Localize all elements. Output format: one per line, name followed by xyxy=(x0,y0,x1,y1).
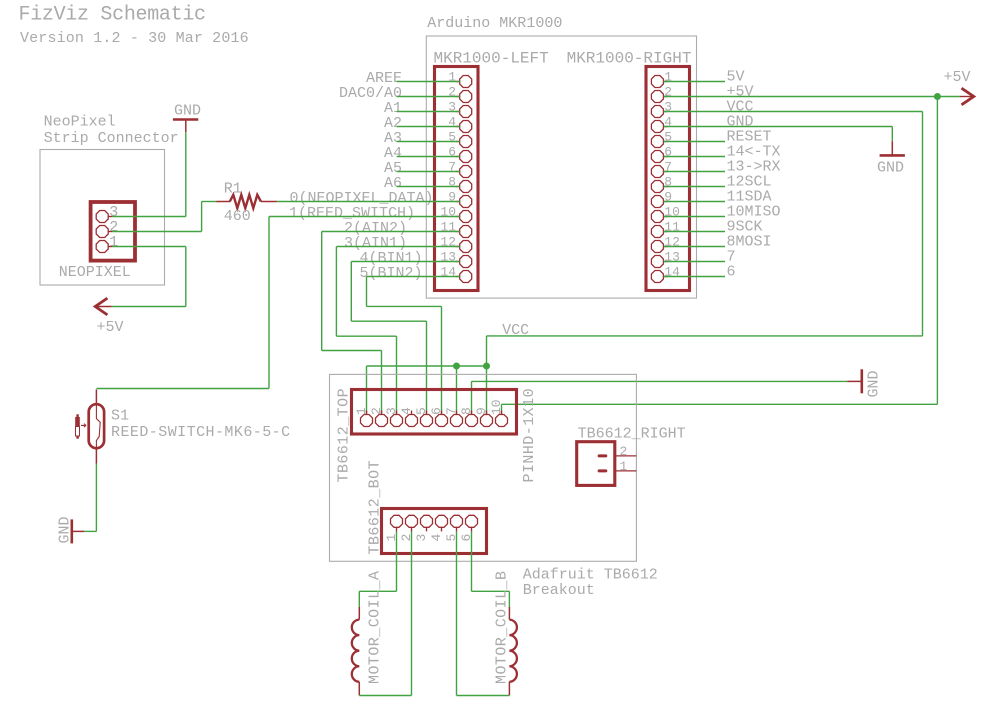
svg-text:NEOPIXEL: NEOPIXEL xyxy=(59,264,131,281)
svg-text:9: 9 xyxy=(474,407,489,415)
svg-text:REED-SWITCH-MK6-5-C: REED-SWITCH-MK6-5-C xyxy=(111,424,291,441)
NEOPIXEL pin 2 stub xyxy=(108,231,112,233)
connector NEOPIXEL box xyxy=(91,202,135,261)
wire MKR pin 14 vertical xyxy=(366,277,368,307)
inductor MOTOR_COIL_B windings xyxy=(509,620,517,682)
wire to MOTOR_COIL_A top xyxy=(359,590,396,592)
MKR1000-LEFT pin 3 circle xyxy=(460,106,472,118)
wire net 0(NEOPIXEL_DATA) to MKR-LEFT pin 9 xyxy=(277,201,460,203)
wire into TB6612_TOP pin xyxy=(396,336,398,414)
connector TB6612_RIGHT box xyxy=(577,442,615,486)
svg-text:2: 2 xyxy=(620,444,628,459)
resistor R1 right lead xyxy=(261,201,277,203)
wire into TB6612_TOP pin 10 xyxy=(501,404,503,414)
wire MKR pin 12 vertical xyxy=(335,247,337,337)
wire net A3 to MKR-LEFT pin 5 xyxy=(397,141,460,143)
svg-text:GND: GND xyxy=(57,516,74,543)
wire net +5V from MKR-RIGHT pin 2 xyxy=(664,96,960,98)
MKR1000-LEFT pin 7 stub xyxy=(456,171,460,173)
wire GND drop from MKR-RIGHT pin 4 xyxy=(891,127,893,142)
wire net 12SCL from MKR-RIGHT pin 8 xyxy=(664,186,725,188)
MKR1000-RIGHT pin 14 stub xyxy=(664,276,668,278)
svg-text:1: 1 xyxy=(109,234,118,251)
svg-text:MKR1000-RIGHT: MKR1000-RIGHT xyxy=(567,50,692,68)
MKR1000-LEFT pin 7 circle xyxy=(460,166,472,178)
MKR1000-RIGHT pin 4 stub xyxy=(664,126,668,128)
wire net A4 to MKR-LEFT pin 6 xyxy=(397,156,460,158)
MKR1000-RIGHT pin 6 stub xyxy=(664,156,668,158)
switch S1 magnet top tab xyxy=(76,414,78,417)
wire +5V to TB6612_TOP pin 10 xyxy=(502,403,938,405)
wire net 2(AIN2) to MKR-LEFT pin 11 xyxy=(322,231,460,233)
TB6612_TOP pin 2 circle xyxy=(376,415,388,427)
svg-text:7: 7 xyxy=(444,407,459,415)
svg-text:6: 6 xyxy=(429,407,444,415)
Arduino MKR1000 frame xyxy=(426,36,696,298)
wire MOTOR_COIL_B bottom xyxy=(457,695,510,697)
wire VCC drop to junction xyxy=(486,336,488,366)
wire to R1 left lead xyxy=(202,201,217,203)
MKR1000-LEFT pin 8 stub xyxy=(456,186,460,188)
MKR1000-RIGHT pin 2 circle xyxy=(651,91,663,103)
MKR1000-RIGHT pin 3 circle xyxy=(651,106,663,118)
wire net 3(AIN1) to MKR-LEFT pin 12 xyxy=(336,246,459,248)
wire net VCC from MKR-RIGHT pin 3 xyxy=(664,111,923,113)
svg-text:Version 1.2 - 30 Mar 2016: Version 1.2 - 30 Mar 2016 xyxy=(20,30,249,47)
TB6612_TOP pin 4 circle xyxy=(406,415,418,427)
wire net 1(REED_SWITCH) to MKR-LEFT pin 10 xyxy=(269,216,460,218)
wire net 7 from MKR-RIGHT pin 13 xyxy=(664,261,725,263)
switch S1 magnet arrow xyxy=(81,424,86,428)
ground G4 bar xyxy=(71,519,74,543)
MKR1000-LEFT pin 4 circle xyxy=(460,121,472,133)
junction dot at TOP pin 9 xyxy=(483,363,490,370)
MKR1000-LEFT pin 10 circle xyxy=(460,211,472,223)
svg-text:5(BIN2): 5(BIN2) xyxy=(359,265,422,282)
ground G2 stub xyxy=(847,380,862,382)
wire net 4(BIN1) to MKR-LEFT pin 13 xyxy=(351,261,459,263)
svg-text:1: 1 xyxy=(354,407,369,415)
wire NEOPIXEL pin 2 xyxy=(112,231,201,233)
TB6612_TOP pin 9 circle xyxy=(481,415,493,427)
TB6612_BOT pin 5 stub xyxy=(456,528,458,532)
switch S1 magnet body xyxy=(75,417,80,427)
TB6612_BOT pin 4 circle xyxy=(436,515,448,527)
MKR1000-LEFT pin 1 circle xyxy=(460,76,472,88)
MKR1000-LEFT pin 9 stub xyxy=(456,201,460,203)
MKR1000-LEFT pin 5 circle xyxy=(460,136,472,148)
MKR1000-LEFT pin 14 circle xyxy=(460,271,472,283)
wire net AREE to MKR-LEFT pin 1 xyxy=(397,81,460,83)
wire net A6 to MKR-LEFT pin 8 xyxy=(397,186,460,188)
svg-text:MOTOR_COIL_A: MOTOR_COIL_A xyxy=(367,571,384,684)
TB6612_RIGHT pin 2 bar xyxy=(598,454,608,457)
switch S1 magnet bottom tab xyxy=(76,436,78,439)
MKR1000-LEFT pin 1 stub xyxy=(456,81,460,83)
connector MKR1000-LEFT box xyxy=(435,67,479,291)
junction dot at TOP pin 7 xyxy=(453,363,460,370)
wire REED_SWITCH vertical xyxy=(268,217,270,389)
MKR1000-RIGHT pin 1 circle xyxy=(651,76,663,88)
wire net 14<-TX from MKR-RIGHT pin 6 xyxy=(664,156,725,158)
wire net 9SCK from MKR-RIGHT pin 11 xyxy=(664,231,725,233)
svg-text:4: 4 xyxy=(429,534,444,542)
svg-text:+5V: +5V xyxy=(944,69,971,86)
MKR1000-RIGHT pin 4 circle xyxy=(651,121,663,133)
MKR1000-LEFT pin 3 stub xyxy=(456,111,460,113)
svg-text:10: 10 xyxy=(489,399,504,415)
TB6612_TOP pin 3 stub xyxy=(396,411,398,415)
switch S1 body xyxy=(89,404,104,448)
MKR1000-RIGHT pin 8 stub xyxy=(664,186,668,188)
MKR1000-RIGHT pin 5 stub xyxy=(664,141,668,143)
svg-text:TB6612_TOP: TB6612_TOP xyxy=(336,388,353,483)
svg-text:FizViz Schematic: FizViz Schematic xyxy=(19,4,206,27)
wire into TB6612_TOP pin 7 xyxy=(456,366,458,414)
MKR1000-LEFT pin 13 circle xyxy=(460,256,472,268)
wire into TB6612_TOP pin 9 xyxy=(486,366,488,414)
svg-text:Adafruit TB6612: Adafruit TB6612 xyxy=(523,566,658,583)
MKR1000-RIGHT pin 7 circle xyxy=(651,166,663,178)
MKR1000-LEFT pin 4 stub xyxy=(456,126,460,128)
wire net 13->RX from MKR-RIGHT pin 7 xyxy=(664,171,725,173)
NEOPIXEL pin 3 circle xyxy=(96,211,108,223)
TB6612_BOT pin 6 stub xyxy=(471,528,473,532)
svg-text:NeoPixel: NeoPixel xyxy=(44,113,116,130)
TB6612_BOT pin 2 stub xyxy=(411,528,413,532)
TB6612_BOT pin 6 circle xyxy=(466,515,478,527)
TB6612_TOP pin 7 stub xyxy=(456,411,458,415)
TB6612_RIGHT pin 2 line xyxy=(615,455,637,457)
MKR1000-LEFT pin 13 stub xyxy=(456,261,460,263)
resistor R1 left lead xyxy=(216,201,230,203)
MKR1000-RIGHT pin 14 circle xyxy=(651,271,663,283)
wire +5V vertical right side xyxy=(936,97,938,405)
TB6612_TOP pin 4 stub xyxy=(411,411,413,415)
svg-text:3: 3 xyxy=(384,407,399,415)
wire net 10MISO from MKR-RIGHT pin 10 xyxy=(664,216,725,218)
TB6612_TOP pin 6 circle xyxy=(436,415,448,427)
TB6612_TOP pin 6 stub xyxy=(441,411,443,415)
wire MKR pin 11 horizontal xyxy=(322,350,382,352)
wire into coil B xyxy=(508,591,510,607)
MKR1000-RIGHT pin 10 stub xyxy=(664,216,668,218)
MKR1000-LEFT pin 6 stub xyxy=(456,156,460,158)
Adafruit TB6612 frame xyxy=(330,374,637,561)
wire into coil A xyxy=(358,591,360,607)
wire MKR pin 14 horizontal xyxy=(367,305,442,307)
TB6612_TOP pin 8 stub xyxy=(471,411,473,415)
MKR1000-RIGHT pin 1 stub xyxy=(664,81,668,83)
TB6612_TOP pin 7 circle xyxy=(451,415,463,427)
MKR1000-RIGHT pin 6 circle xyxy=(651,151,663,163)
wire down to +5V xyxy=(185,247,187,307)
wire MKR pin 12 horizontal xyxy=(336,335,396,337)
wire MKR pin 13 vertical xyxy=(350,262,352,322)
TB6612_TOP pin 5 stub xyxy=(426,411,428,415)
MKR1000-RIGHT pin 12 circle xyxy=(651,241,663,253)
TB6612_TOP pin 1 stub xyxy=(366,411,368,415)
wire net DAC0/A0 to MKR-LEFT pin 2 xyxy=(397,96,460,98)
resistor R1 zigzag xyxy=(230,195,261,208)
wire into TB6612_TOP pin xyxy=(381,351,383,415)
ground G1 stub xyxy=(891,141,893,155)
wire riser to R1 xyxy=(201,202,203,232)
wire net A5 to MKR-LEFT pin 7 xyxy=(397,171,460,173)
MKR1000-RIGHT pin 9 circle xyxy=(651,196,663,208)
wire NEOPIXEL pin 3 xyxy=(112,216,185,218)
svg-text:1: 1 xyxy=(620,459,628,474)
NEOPIXEL pin 1 circle xyxy=(96,241,108,253)
svg-text:TB6612_RIGHT: TB6612_RIGHT xyxy=(578,425,686,442)
svg-text:+5V: +5V xyxy=(97,319,124,336)
wire GND to TB6612_TOP pin 8 xyxy=(472,380,848,382)
wire net A2 to MKR-LEFT pin 4 xyxy=(397,126,460,128)
MKR1000-RIGHT pin 11 stub xyxy=(664,231,668,233)
MKR1000-LEFT pin 9 circle xyxy=(460,196,472,208)
TB6612_TOP pin 10 circle xyxy=(496,415,508,427)
MKR1000-RIGHT pin 5 circle xyxy=(651,136,663,148)
wire to MOTOR_COIL_B top xyxy=(472,590,510,592)
ground G2 bar xyxy=(860,369,863,393)
junction dot +5V xyxy=(934,93,941,100)
switch S1 bottom lead xyxy=(95,449,97,464)
switch S1 contact xyxy=(96,404,100,450)
svg-text:6: 6 xyxy=(727,264,736,281)
connector MKR1000-RIGHT box xyxy=(646,67,690,291)
svg-text:PINHD-1X10: PINHD-1X10 xyxy=(521,388,538,483)
wire net 11SDA from MKR-RIGHT pin 9 xyxy=(664,201,725,203)
inductor MOTOR_COIL_B top lead xyxy=(508,607,510,620)
+5V symbol right shaft xyxy=(960,96,974,98)
ground G4 stub xyxy=(73,530,84,532)
TB6612_RIGHT pin 1 bar xyxy=(598,469,608,472)
wire VCC vertical right xyxy=(922,112,924,336)
wire NEOPIXEL pin 1 xyxy=(112,246,185,248)
wire MKR pin 13 horizontal xyxy=(351,320,426,322)
svg-text:3: 3 xyxy=(414,534,429,542)
TB6612_BOT pin 1 stub xyxy=(396,528,398,532)
wire into TB6612_TOP pin xyxy=(441,306,443,414)
wire into TB6612_TOP pin 8 xyxy=(471,381,473,414)
inductor MOTOR_COIL_B bottom lead xyxy=(508,682,510,696)
wire GND down to NEOPIXEL pin 3 xyxy=(185,132,187,216)
svg-text:S1: S1 xyxy=(111,407,129,424)
svg-text:2: 2 xyxy=(369,407,384,415)
svg-text:Arduino MKR1000: Arduino MKR1000 xyxy=(427,15,562,32)
wire TB6612_BOT pin 6 down xyxy=(471,531,473,591)
svg-text:VCC: VCC xyxy=(502,322,529,339)
TB6612_BOT pin 3 circle xyxy=(421,515,433,527)
TB6612_TOP pin 1 circle xyxy=(361,415,373,427)
ground G3 bar xyxy=(173,118,198,121)
wire MOTOR_COIL_A bottom xyxy=(359,695,411,697)
ground G3 stub xyxy=(185,120,187,133)
svg-text:5: 5 xyxy=(414,407,429,415)
inductor MOTOR_COIL_A bottom lead xyxy=(358,682,360,696)
+5V symbol right arrow xyxy=(962,88,974,105)
wire into TB6612_TOP pin 1 xyxy=(366,366,368,414)
TB6612_RIGHT pin 1 line xyxy=(615,470,637,472)
svg-text:MKR1000-LEFT: MKR1000-LEFT xyxy=(434,50,549,68)
wire VCC horizontal xyxy=(487,335,923,337)
MKR1000-RIGHT pin 10 circle xyxy=(651,211,663,223)
wire net RESET from MKR-RIGHT pin 5 xyxy=(664,141,725,143)
MKR1000-LEFT pin 12 stub xyxy=(456,246,460,248)
wire TB6612_BOT pin 1 down xyxy=(396,531,398,591)
svg-text:8: 8 xyxy=(459,407,474,415)
wire net 6 from MKR-RIGHT pin 14 xyxy=(664,276,725,278)
TB6612_BOT pin 5 circle xyxy=(451,515,463,527)
MKR1000-LEFT pin 11 stub xyxy=(456,231,460,233)
wire net 5(BIN2) to MKR-LEFT pin 14 xyxy=(367,276,460,278)
wire S1 to GND xyxy=(95,464,97,532)
MKR1000-LEFT pin 2 circle xyxy=(460,91,472,103)
wire into TB6612_TOP pin xyxy=(426,321,428,414)
MKR1000-LEFT pin 6 circle xyxy=(460,151,472,163)
inductor MOTOR_COIL_A top lead xyxy=(358,607,360,620)
svg-text:MOTOR_COIL_B: MOTOR_COIL_B xyxy=(494,571,511,684)
svg-text:GND: GND xyxy=(866,370,883,397)
MKR1000-LEFT pin 2 stub xyxy=(456,96,460,98)
MKR1000-RIGHT pin 13 stub xyxy=(664,261,668,263)
MKR1000-LEFT pin 12 circle xyxy=(460,241,472,253)
svg-text:4: 4 xyxy=(399,407,414,415)
wire VCC bus above TB6612_TOP xyxy=(367,365,487,367)
wire MKR pin 11 vertical xyxy=(321,232,323,351)
MKR1000-LEFT pin 8 circle xyxy=(460,181,472,193)
TB6612_BOT pin 2 circle xyxy=(406,515,418,527)
TB6612_TOP pin 9 stub xyxy=(486,411,488,415)
MKR1000-RIGHT pin 7 stub xyxy=(664,171,668,173)
MKR1000-RIGHT pin 13 circle xyxy=(651,256,663,268)
ground G1 bar xyxy=(880,154,905,157)
TB6612_TOP pin 10 stub xyxy=(501,411,503,415)
+5V symbol left shaft xyxy=(95,306,111,308)
TB6612_TOP pin 2 stub xyxy=(381,411,383,415)
inductor MOTOR_COIL_A windings xyxy=(352,620,360,682)
connector TB6612_TOP box xyxy=(352,390,517,435)
MKR1000-RIGHT pin 2 stub xyxy=(664,96,668,98)
wire REED_SWITCH horizontal xyxy=(96,388,269,390)
svg-text:Breakout: Breakout xyxy=(523,582,595,599)
svg-text:TB6612_BOT: TB6612_BOT xyxy=(367,460,384,555)
MKR1000-RIGHT pin 9 stub xyxy=(664,201,668,203)
TB6612_BOT pin 1 circle xyxy=(391,515,403,527)
TB6612_BOT pin 3 stub xyxy=(426,528,428,532)
NEOPIXEL pin 2 circle xyxy=(96,226,108,238)
TB6612_TOP pin 5 circle xyxy=(421,415,433,427)
MKR1000-RIGHT pin 11 circle xyxy=(651,226,663,238)
svg-text:Strip Connector: Strip Connector xyxy=(44,130,179,147)
svg-text:460: 460 xyxy=(224,208,251,225)
svg-text:GND: GND xyxy=(877,159,904,176)
TB6612_BOT pin 4 stub xyxy=(441,528,443,532)
wire net 8MOSI from MKR-RIGHT pin 12 xyxy=(664,246,725,248)
MKR1000-RIGHT pin 12 stub xyxy=(664,246,668,248)
connector TB6612_BOT box xyxy=(382,509,487,554)
MKR1000-LEFT pin 14 stub xyxy=(456,276,460,278)
switch S1 magnet outline xyxy=(76,427,80,437)
NEOPIXEL pin 1 stub xyxy=(108,246,112,248)
MKR1000-RIGHT pin 3 stub xyxy=(664,111,668,113)
+5V symbol left arrow xyxy=(95,298,107,315)
wire to GND stub xyxy=(84,530,96,532)
wire net A1 to MKR-LEFT pin 3 xyxy=(397,111,460,113)
wire net 5V from MKR-RIGHT pin 1 xyxy=(664,81,725,83)
NEOPIXEL pin 3 stub xyxy=(108,216,112,218)
TB6612_TOP pin 3 circle xyxy=(391,415,403,427)
NeoPixel frame xyxy=(40,150,165,286)
TB6612_TOP pin 8 circle xyxy=(466,415,478,427)
wire TB6612_BOT pin 2 down xyxy=(411,531,413,695)
MKR1000-RIGHT pin 8 circle xyxy=(651,181,663,193)
svg-text:GND: GND xyxy=(174,103,201,120)
wire to +5V arrow xyxy=(112,306,186,308)
MKR1000-LEFT pin 10 stub xyxy=(456,216,460,218)
wire net GND from MKR-RIGHT pin 4 xyxy=(664,126,893,128)
switch S1 top lead xyxy=(95,390,97,404)
wire TB6612_BOT pin 5 down xyxy=(456,531,458,695)
MKR1000-LEFT pin 5 stub xyxy=(456,141,460,143)
MKR1000-LEFT pin 11 circle xyxy=(460,226,472,238)
